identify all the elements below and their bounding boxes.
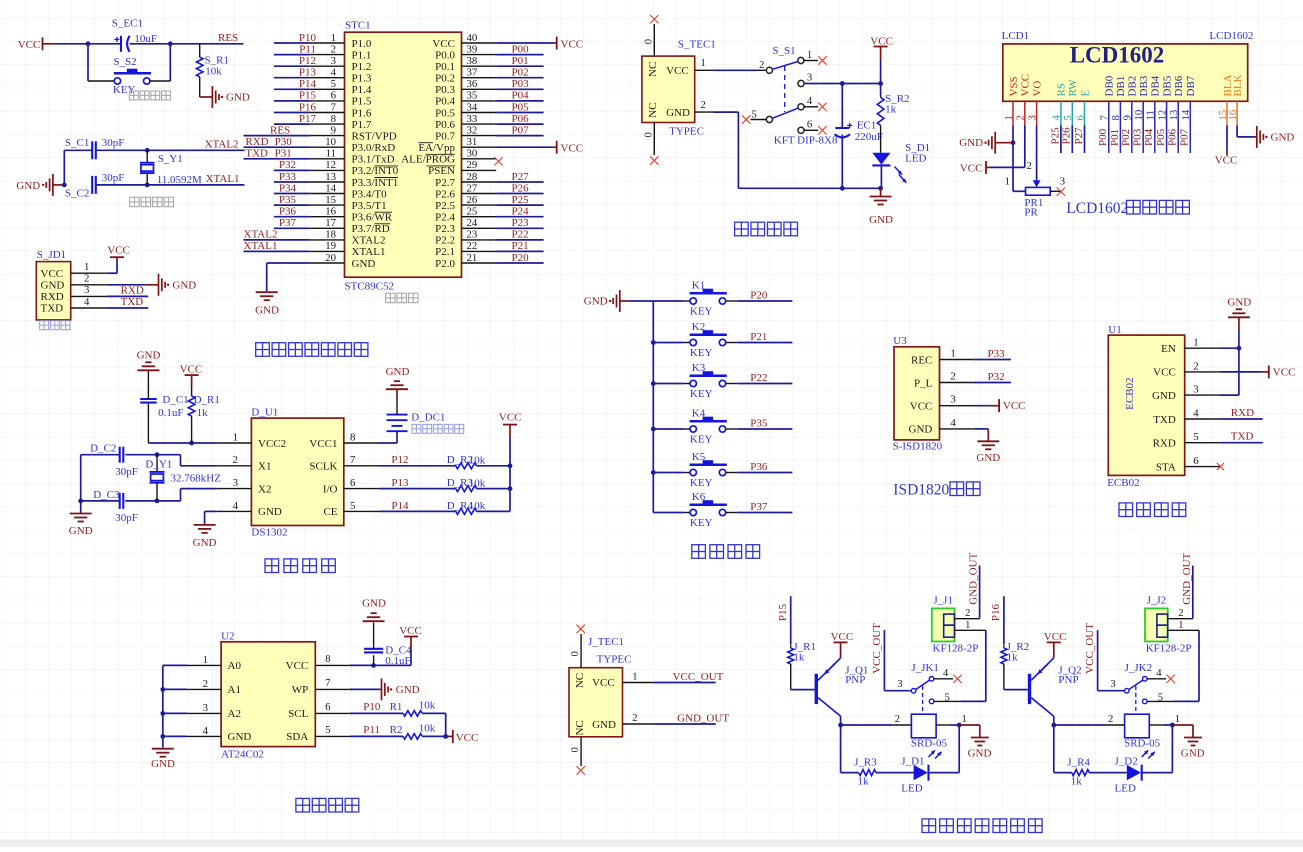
svg-text:11: 11 (326, 148, 336, 160)
svg-text:NC: NC (574, 720, 586, 735)
junction (145, 148, 150, 153)
no connect (953, 675, 961, 683)
svg-text:P3.1/TxD: P3.1/TxD (352, 154, 395, 166)
svg-text:4: 4 (203, 725, 209, 737)
title relay control circuit (922, 819, 936, 833)
connector J_J2 KF128-2P (1145, 608, 1168, 641)
bottom scrollbar strip (0, 840, 1303, 848)
svg-text:GND: GND (909, 424, 933, 436)
svg-text:P1.6: P1.6 (352, 107, 372, 119)
svg-text:P0.6: P0.6 (435, 119, 455, 131)
wire P12 (274, 65, 310, 67)
svg-text:D_DC1: D_DC1 (411, 411, 445, 423)
junction (1237, 346, 1242, 351)
svg-text:3: 3 (203, 702, 208, 714)
pin 8 stub (1119, 101, 1121, 153)
junction (155, 452, 160, 457)
pin 10 (310, 146, 345, 148)
svg-text:P04: P04 (1143, 128, 1155, 146)
overbar marks (374, 165, 398, 167)
IC U2 body (221, 642, 315, 747)
svg-text:GND: GND (137, 349, 161, 361)
pin 2 (695, 111, 714, 113)
resistor S_R2 (877, 95, 884, 153)
svg-text:1: 1 (632, 671, 637, 682)
pin 16 stub (1236, 101, 1238, 125)
pin 28 (462, 181, 497, 183)
no connect (650, 156, 658, 164)
svg-text:ISD1820: ISD1820 (893, 482, 949, 499)
svg-text:P1.3: P1.3 (352, 73, 372, 85)
svg-text:10k: 10k (419, 699, 436, 711)
wire WP (350, 688, 380, 690)
wire (130, 43, 171, 45)
wire pin15 (1226, 125, 1228, 149)
svg-text:P17: P17 (299, 113, 317, 125)
svg-text:KEY: KEY (690, 477, 713, 489)
switch S_S1 (766, 57, 804, 133)
wire VCC rail (509, 438, 511, 512)
svg-text:12: 12 (325, 159, 336, 171)
svg-text:GND: GND (959, 137, 983, 149)
ground (power) (869, 188, 893, 226)
junction (651, 381, 656, 386)
junction (145, 183, 150, 188)
svg-text:21: 21 (467, 252, 478, 264)
svg-text:DB6: DB6 (1173, 75, 1185, 96)
svg-text:4: 4 (1156, 668, 1162, 679)
pin 16 (310, 216, 345, 218)
wire SDA (350, 735, 403, 737)
svg-text:1k: 1k (793, 652, 805, 664)
svg-text:P33: P33 (988, 348, 1006, 360)
svg-text:220uF: 220uF (855, 131, 883, 143)
wire (1054, 724, 1106, 726)
pin 2 (940, 382, 974, 384)
pin 10 stub (1142, 101, 1144, 153)
svg-text:GND: GND (151, 758, 175, 770)
svg-text:1: 1 (233, 431, 238, 443)
svg-text:2: 2 (965, 608, 970, 619)
svg-text:DB3: DB3 (1138, 75, 1150, 96)
svg-text:18: 18 (325, 229, 336, 241)
svg-text:GND: GND (976, 452, 1000, 464)
wire address bus (163, 664, 187, 666)
wire GND vertical (1238, 330, 1240, 395)
svg-text:29: 29 (467, 159, 478, 171)
wire P33 (974, 359, 1011, 361)
ground (S_R1) (200, 86, 250, 108)
key K4 (690, 417, 727, 432)
wire P01 (496, 65, 543, 67)
pin 21 (462, 262, 497, 264)
junction (160, 687, 165, 692)
wire P13 (379, 488, 456, 490)
svg-text:S_R1: S_R1 (205, 54, 229, 66)
svg-text:J_J2: J_J2 (1147, 595, 1167, 607)
junction (508, 486, 513, 491)
svg-text:S_C2: S_C2 (65, 188, 89, 200)
svg-text:RXD: RXD (245, 136, 268, 148)
junction (371, 663, 376, 668)
svg-text:23: 23 (467, 229, 478, 241)
svg-text:LED: LED (1115, 782, 1136, 794)
power port VCC (relay) (831, 631, 854, 658)
svg-text:K5: K5 (692, 451, 706, 463)
svg-text:6: 6 (350, 477, 356, 489)
pin 0 bottom (580, 737, 582, 766)
svg-text:P23: P23 (512, 217, 530, 229)
svg-text:S-ISD1820: S-ISD1820 (893, 441, 943, 453)
svg-text:1: 1 (950, 348, 955, 360)
svg-text:TXD: TXD (245, 148, 268, 160)
pin 7 stub (1108, 101, 1110, 153)
relay SRD-05 J_R1 coil (911, 714, 936, 738)
power port GND (LCD) (959, 132, 1013, 154)
svg-text:8: 8 (325, 653, 330, 665)
svg-text:3: 3 (84, 284, 89, 296)
svg-text:3: 3 (950, 394, 955, 406)
pin 20 (310, 262, 345, 264)
gray text crystal-circuit (130, 197, 140, 207)
pin 7 (310, 112, 345, 114)
wire P21 (726, 342, 738, 344)
pin 11 stub (1154, 101, 1156, 153)
svg-text:6: 6 (807, 119, 812, 130)
svg-text:U2: U2 (221, 630, 234, 642)
no connect STA (1217, 463, 1224, 470)
title MCU minimal system (256, 343, 270, 357)
svg-text:VCC: VCC (1153, 367, 1176, 379)
pin 40 (462, 42, 497, 44)
wire to VCC (107, 272, 117, 274)
svg-text:9: 9 (331, 124, 336, 136)
svg-text:A1: A1 (228, 684, 241, 696)
wire (107, 284, 146, 286)
svg-text:1: 1 (331, 32, 336, 44)
svg-text:D_C2: D_C2 (90, 442, 116, 454)
wire GND bus (630, 300, 653, 302)
svg-text:VCC: VCC (456, 732, 479, 744)
svg-text:2: 2 (203, 678, 208, 690)
crystal D_Y1 (150, 455, 165, 501)
svg-text:38: 38 (467, 55, 478, 67)
pin 3 (1184, 394, 1220, 396)
svg-text:DB5: DB5 (1161, 75, 1173, 96)
pin 1 (1168, 629, 1199, 631)
svg-text:STC1: STC1 (345, 20, 371, 32)
svg-text:VCC: VCC (561, 143, 584, 155)
svg-text:P1.0: P1.0 (352, 38, 372, 50)
svg-text:1: 1 (807, 50, 812, 61)
svg-text:P0.7: P0.7 (435, 130, 455, 142)
svg-text:P2.6: P2.6 (435, 188, 455, 200)
gray text download-port (40, 321, 49, 330)
svg-text:VCC2: VCC2 (258, 438, 286, 450)
relay SRD-05 J_R2 coil (1125, 714, 1150, 738)
svg-text:36: 36 (467, 78, 478, 90)
junction (840, 186, 845, 191)
wire pin16 (1236, 125, 1238, 137)
svg-text:P11: P11 (299, 43, 316, 55)
svg-text:REC: REC (911, 354, 932, 366)
svg-text:LCD1602: LCD1602 (1209, 30, 1253, 42)
junction (86, 41, 91, 46)
wire (653, 300, 683, 302)
resistor D_R4 (456, 508, 510, 514)
pin 5 (344, 510, 379, 512)
svg-text:7: 7 (325, 677, 331, 689)
svg-text:A2: A2 (228, 708, 241, 720)
junction (78, 499, 83, 504)
svg-text:U1: U1 (1108, 324, 1121, 336)
wire (1174, 700, 1199, 702)
svg-text:P07: P07 (1179, 128, 1191, 146)
svg-text:P16: P16 (990, 603, 1002, 621)
svg-text:U3: U3 (893, 335, 907, 347)
wire GND_OUT (1192, 566, 1194, 619)
pin 19 (310, 250, 345, 252)
title clock circuit (265, 559, 279, 573)
svg-text:10k: 10k (469, 455, 486, 467)
svg-text:10k: 10k (469, 500, 486, 512)
pin 1 (217, 442, 252, 444)
svg-text:GND: GND (1271, 132, 1295, 144)
junction (651, 470, 656, 475)
svg-text:XTAL1: XTAL1 (206, 173, 240, 185)
pin 6 (310, 100, 345, 102)
wire X2 (125, 500, 180, 502)
svg-text:30pF: 30pF (102, 172, 125, 184)
svg-text:P_L: P_L (914, 377, 933, 389)
pin 0 top (653, 24, 655, 56)
svg-text:0: 0 (643, 132, 654, 137)
resistor D_R2 (456, 463, 510, 469)
svg-text:LCD1602: LCD1602 (1066, 200, 1128, 217)
svg-text:GND_OUT: GND_OUT (677, 713, 729, 725)
svg-text:GND: GND (193, 537, 217, 549)
pin 2 (217, 465, 252, 467)
no connect (1057, 188, 1065, 196)
svg-text:LCD1602: LCD1602 (1070, 43, 1165, 68)
svg-text:10k: 10k (419, 722, 436, 734)
svg-text:7: 7 (350, 454, 356, 466)
svg-text:NC: NC (647, 62, 659, 77)
junction (168, 41, 173, 46)
svg-text:P27: P27 (1073, 127, 1085, 145)
pin 4 (1184, 418, 1220, 420)
battery D_DC1 (387, 398, 408, 431)
junction (160, 734, 165, 739)
no connect pin30 (494, 157, 502, 165)
svg-text:25: 25 (467, 206, 478, 218)
svg-text:P11: P11 (363, 724, 380, 736)
wire RXD (244, 146, 310, 148)
svg-text:GND: GND (69, 525, 93, 537)
svg-text:S_TEC1: S_TEC1 (678, 39, 716, 51)
svg-text:P01: P01 (512, 55, 529, 67)
junction (1170, 723, 1175, 728)
svg-text:J_D2: J_D2 (1115, 755, 1138, 767)
wire TXD (1220, 442, 1263, 444)
wire (714, 111, 739, 113)
pin 4 (71, 307, 107, 309)
svg-text:0.1uF: 0.1uF (158, 407, 183, 419)
power port VCC (D_R1) (180, 364, 203, 387)
pin 7 (315, 688, 350, 690)
svg-text:VCC: VCC (286, 660, 309, 672)
pin 33 (462, 123, 497, 125)
pin 18 (310, 239, 345, 241)
svg-text:AT24C02: AT24C02 (221, 749, 264, 761)
svg-text:P2.7: P2.7 (435, 177, 455, 189)
pin 1 stub (803, 60, 818, 62)
no connect (818, 56, 826, 64)
wire pin2 to VCC (1024, 125, 1026, 167)
svg-text:4: 4 (943, 668, 949, 679)
wire RES (244, 135, 310, 137)
wire GND pin20 (267, 262, 310, 264)
svg-text:K6: K6 (692, 491, 706, 503)
power port VCC (U1) (1261, 365, 1296, 378)
svg-text:I/O: I/O (323, 483, 338, 495)
svg-text:VCC: VCC (870, 35, 893, 47)
wire XTAL1 net (96, 184, 245, 186)
svg-text:15: 15 (325, 194, 336, 206)
svg-text:6: 6 (331, 90, 337, 102)
svg-text:P02: P02 (512, 67, 529, 79)
pin 1 (955, 629, 986, 631)
svg-text:EC1: EC1 (857, 119, 877, 131)
wire (841, 724, 893, 726)
svg-text:P0.0: P0.0 (435, 49, 455, 61)
junction (443, 734, 448, 739)
svg-text:P2.4: P2.4 (435, 212, 455, 224)
svg-text:34: 34 (467, 101, 478, 113)
svg-text:VCC: VCC (18, 39, 41, 51)
pin 12 stub (1166, 101, 1168, 153)
wire (653, 342, 683, 344)
svg-text:VO: VO (1031, 81, 1043, 97)
pin 35 (462, 100, 497, 102)
svg-text:P3.0/RxD: P3.0/RxD (352, 142, 396, 154)
svg-text:39: 39 (467, 43, 478, 55)
power port VCC (U2) (399, 625, 422, 650)
svg-text:5: 5 (325, 724, 330, 736)
pin 31 (462, 146, 497, 148)
capacitor S_C1 (92, 141, 96, 159)
svg-text:RXD: RXD (1153, 438, 1176, 450)
pin 2 (623, 723, 654, 725)
svg-text:P34: P34 (279, 182, 297, 194)
svg-text:TYPEC: TYPEC (669, 125, 704, 137)
svg-text:2: 2 (84, 273, 89, 285)
potentiometer PR1 (1026, 180, 1061, 195)
svg-text:RW: RW (1067, 79, 1079, 97)
pin 1 stub (936, 724, 949, 726)
svg-text:GND: GND (255, 305, 279, 317)
svg-text:K4: K4 (692, 408, 706, 420)
pin 8 (315, 664, 350, 666)
svg-text:P2.0: P2.0 (435, 258, 455, 270)
svg-text:P33: P33 (279, 171, 297, 183)
pin 15 (310, 204, 345, 206)
pin 5 (315, 735, 350, 737)
svg-text:37: 37 (467, 67, 478, 79)
svg-text:WP: WP (292, 684, 309, 696)
svg-text:GND: GND (666, 107, 690, 119)
svg-text:TXD: TXD (1153, 414, 1176, 426)
svg-text:EN: EN (1161, 343, 1176, 355)
junction (1011, 140, 1016, 145)
wire P16 (1003, 596, 1005, 644)
capacitor D_C3 (120, 493, 124, 509)
power port GND (crystal) (16, 174, 64, 196)
svg-text:22: 22 (467, 240, 478, 252)
svg-text:RES: RES (218, 32, 238, 44)
svg-text:P01: P01 (1109, 129, 1121, 146)
wire RXD (1220, 418, 1263, 420)
wire XTAL1 (244, 250, 310, 252)
svg-text:E: E (1079, 90, 1091, 97)
svg-text:P07: P07 (512, 124, 530, 136)
svg-text:DS1302: DS1302 (251, 526, 287, 538)
svg-text:17: 17 (325, 217, 336, 229)
svg-text:P16: P16 (299, 101, 317, 113)
svg-text:X2: X2 (258, 483, 271, 495)
svg-text:VCC: VCC (499, 412, 522, 424)
svg-text:P30: P30 (275, 136, 293, 148)
junction (155, 499, 160, 504)
svg-text:2: 2 (1178, 608, 1183, 619)
svg-text:X1: X1 (258, 461, 271, 473)
pin 32 (462, 135, 497, 137)
wire P20 (726, 300, 738, 302)
power port VCC (pin40) (553, 37, 583, 51)
wire P37 (274, 227, 310, 229)
svg-text:P2.5: P2.5 (435, 200, 455, 212)
svg-text:2: 2 (950, 371, 955, 383)
svg-text:VCC: VCC (1020, 74, 1032, 97)
svg-text:8: 8 (331, 113, 336, 125)
pin 39 (462, 54, 497, 56)
svg-text:32.768kHZ: 32.768kHZ (171, 473, 222, 485)
svg-text:P12: P12 (299, 55, 316, 67)
svg-text:GND: GND (584, 296, 608, 308)
no connect (650, 15, 658, 23)
wire (880, 60, 882, 95)
no connect (742, 115, 750, 123)
junction (1051, 723, 1056, 728)
svg-text:KEY: KEY (690, 388, 713, 400)
svg-text:1k: 1k (858, 775, 870, 787)
svg-text:KF128-2P: KF128-2P (1146, 643, 1192, 655)
pin 1 (623, 682, 654, 684)
svg-text:2: 2 (895, 714, 900, 725)
LED J_D2 (1127, 750, 1155, 780)
resistor S_R1 (196, 44, 203, 97)
pin 6 (315, 712, 350, 714)
pin 9 (310, 135, 345, 137)
wire (1171, 725, 1173, 773)
svg-text:P0.3: P0.3 (435, 84, 455, 96)
svg-text:40: 40 (467, 32, 478, 44)
svg-text:SDA: SDA (286, 731, 308, 743)
svg-text:P3.4/T0: P3.4/T0 (352, 188, 388, 200)
wire (961, 700, 986, 702)
svg-text:6: 6 (1193, 455, 1199, 467)
svg-text:P21: P21 (750, 331, 767, 343)
